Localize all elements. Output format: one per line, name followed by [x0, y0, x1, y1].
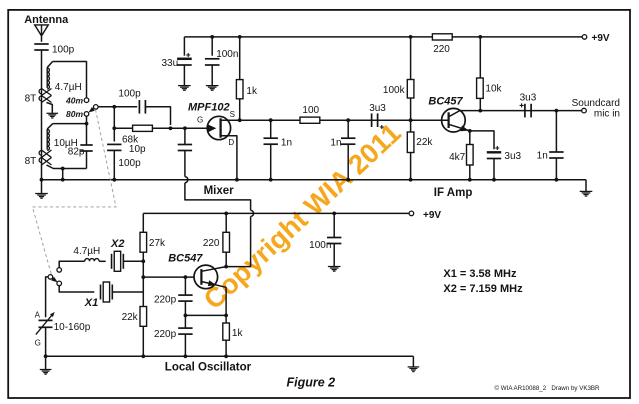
- svg-text:X2 = 7.159 MHz: X2 = 7.159 MHz: [443, 283, 523, 295]
- svg-text:4k7: 4k7: [449, 152, 466, 163]
- wire rail to 33u: [183, 37, 185, 56]
- svg-text:1k: 1k: [246, 86, 258, 97]
- capacitor 82p: [80, 144, 92, 146]
- svg-text:220p: 220p: [154, 294, 177, 305]
- junction base node LO: [141, 275, 145, 279]
- wire hop LO injection over ground rail: [185, 177, 188, 183]
- junction 68k-100p: [169, 126, 173, 130]
- junction rail-100n: [210, 35, 214, 39]
- svg-text:X2: X2: [110, 238, 124, 250]
- ground 100n LO: [328, 266, 341, 268]
- svg-text:A: A: [35, 311, 41, 320]
- junction 80m-L2: [85, 122, 89, 126]
- junction base-220p: [184, 275, 188, 279]
- svg-text:1k: 1k: [232, 328, 244, 339]
- junction rail-100n LO: [332, 212, 336, 216]
- svg-text:220p: 220p: [154, 329, 177, 340]
- polarity + 3u3 output: [520, 103, 524, 107]
- inductor L2 crossover turns: [42, 150, 52, 165]
- capacitor 100n mixer: [205, 58, 220, 60]
- transistor BC547 body: [194, 265, 218, 289]
- wire X1 to node: [112, 291, 143, 293]
- capacitor 10p injection: [178, 144, 192, 146]
- wire tuning cap to rail: [45, 327, 47, 356]
- BC457 collector lead: [449, 111, 460, 117]
- junction rail-100p: [112, 178, 116, 182]
- svg-text:+9V: +9V: [423, 210, 441, 221]
- svg-text:100n: 100n: [216, 49, 238, 60]
- capacitor 220p b: [184, 315, 186, 328]
- wire 220p junction link: [185, 314, 226, 316]
- band switch S1a lever: [91, 108, 94, 111]
- wire emitter to 4k7: [469, 131, 471, 145]
- LO output link upper: [185, 183, 251, 211]
- wire rail to 1k: [239, 37, 241, 80]
- band switch S1b lever: [52, 278, 55, 280]
- wire L2 top link: [53, 123, 87, 125]
- capacitor 1n a: [270, 120, 272, 138]
- resistor 68k: [114, 127, 132, 129]
- band switch S1a 80m contact: [84, 112, 89, 117]
- svg-text:82p: 82p: [68, 147, 85, 158]
- wire L2 bottom to ground rail: [62, 169, 64, 180]
- svg-text:BC457: BC457: [428, 96, 463, 108]
- junction source node: [238, 118, 242, 122]
- wire 33u to ground: [183, 65, 185, 85]
- junction tuning rail: [44, 354, 48, 358]
- svg-text:100k: 100k: [383, 85, 406, 96]
- svg-text:IF Amp: IF Amp: [434, 187, 473, 199]
- wire emitter down: [225, 287, 227, 315]
- svg-text:33u: 33u: [162, 58, 179, 69]
- wire 40m to L3: [59, 261, 84, 267]
- junction 22k rail: [409, 178, 413, 182]
- antenna symbol: [35, 25, 49, 36]
- BC547 base bar: [200, 269, 202, 285]
- wire L1 top to 40m contact: [53, 62, 87, 98]
- junction base node: [409, 118, 413, 122]
- wire rail to 10k: [479, 37, 481, 78]
- wire 82p top: [86, 142, 88, 145]
- junction X2 node: [141, 259, 145, 263]
- resistor 220 LO: [223, 232, 230, 252]
- capacitor 220p a: [184, 277, 186, 295]
- wire base node to 100k: [410, 98, 412, 120]
- svg-text:220: 220: [203, 238, 220, 249]
- svg-text:D: D: [228, 138, 234, 147]
- +9V rail mixer: [184, 36, 584, 38]
- MPF102 gate arrow: [208, 124, 217, 132]
- svg-text:1n: 1n: [537, 150, 548, 161]
- ground tuning: [45, 356, 47, 369]
- junction 1k rail LO: [224, 354, 228, 358]
- capacitor 100n LO: [333, 213, 335, 237]
- resistor 100 series: [300, 117, 320, 123]
- svg-text:3u3: 3u3: [520, 92, 537, 103]
- ground LO right: [412, 356, 414, 366]
- gang link dashed: [32, 110, 116, 275]
- junction emitter node: [468, 129, 472, 133]
- +9V rail LO: [143, 212, 411, 214]
- svg-text:100p: 100p: [52, 45, 75, 56]
- svg-text:27k: 27k: [149, 238, 166, 249]
- resistor 1k mixer: [236, 80, 243, 99]
- junction emitter-220p: [224, 314, 228, 318]
- wire L2 bottom: [47, 165, 87, 169]
- junction rail-220: [224, 212, 228, 216]
- wire X2 to node: [123, 260, 143, 262]
- resistor 27k: [140, 232, 147, 252]
- junction 4k7 rail: [468, 178, 472, 182]
- svg-text:X1: X1: [84, 297, 98, 309]
- wire 100p shunt to ground rail: [113, 150, 115, 179]
- polarity + 3u3 bypass: [495, 146, 499, 150]
- junction 1n-b rail: [346, 178, 350, 182]
- svg-text:10k: 10k: [485, 83, 502, 94]
- wire 68k to gate: [152, 127, 208, 129]
- resistor 22k if: [410, 120, 412, 132]
- base line LO: [143, 276, 194, 278]
- svg-text:100: 100: [302, 105, 319, 116]
- resistor 22k LO: [140, 307, 147, 327]
- capacitor 100p antenna: [34, 43, 48, 45]
- svg-text:+9V: +9V: [592, 33, 610, 44]
- svg-text:8T: 8T: [25, 156, 37, 167]
- junction 68k-left: [112, 126, 116, 130]
- junction rail-antenna: [40, 178, 44, 182]
- svg-text:X1 = 3.58 MHz: X1 = 3.58 MHz: [443, 268, 517, 280]
- svg-text:80m: 80m: [66, 109, 83, 119]
- wire rail to 220: [225, 213, 227, 232]
- MPF102 source lead: [221, 119, 240, 121]
- wire hop handled at rail: [184, 151, 186, 177]
- capacitor 33u electrolytic: [177, 58, 192, 61]
- capacitor 3u3 output: [524, 104, 526, 118]
- svg-text:1n: 1n: [281, 137, 292, 148]
- band switch S1a 40m contact: [84, 98, 89, 103]
- svg-text:100p: 100p: [118, 88, 141, 99]
- wire L1 bottom to ground: [47, 103, 53, 113]
- collector output line: [460, 110, 584, 112]
- capacitor 3u3 bypass electrolytic: [487, 151, 501, 153]
- svg-text:22k: 22k: [122, 312, 139, 323]
- svg-text:1n: 1n: [330, 137, 341, 148]
- inductor L1 4.7uH winding: [47, 68, 49, 89]
- junction 220p b rail: [184, 354, 188, 358]
- junction 1n-a rail: [269, 178, 273, 182]
- svg-text:10-160p: 10-160p: [54, 322, 91, 333]
- ground 100n: [206, 85, 219, 87]
- resistor 4k7: [467, 145, 474, 166]
- junction 22k rail LO: [141, 354, 145, 358]
- svg-text:Figure 2: Figure 2: [287, 376, 336, 390]
- svg-text:G: G: [197, 116, 203, 125]
- transistor MPF102 body: [207, 116, 230, 139]
- inductor L2 10uH top lead: [47, 124, 53, 129]
- capacitor 100p coupling top: [138, 100, 140, 114]
- junction rail-L2: [61, 178, 65, 182]
- ground 33u: [178, 85, 191, 87]
- svg-text:S: S: [230, 110, 235, 119]
- wire 10p to gate: [184, 128, 186, 144]
- BC547 collector lead: [201, 267, 226, 272]
- wire L3 to X2: [99, 260, 106, 262]
- svg-text:100p: 100p: [118, 158, 141, 169]
- wire 100k to rail: [410, 37, 412, 80]
- inductor L1 crossover turns: [42, 89, 52, 103]
- BC457 base bar: [448, 112, 450, 128]
- terminal +9V LO: [409, 211, 414, 216]
- ground rail LO: [46, 355, 414, 357]
- wire antenna to C1: [41, 36, 43, 42]
- wire 80m to X1: [59, 286, 94, 292]
- crystal X2: [111, 254, 113, 269]
- junction collector node LO: [224, 265, 228, 269]
- LO output link: [226, 216, 251, 266]
- resistor 100k: [407, 80, 414, 99]
- wire hop LO over +9V rail: [251, 210, 254, 216]
- capacitor 100p shunt: [107, 143, 121, 145]
- wire emitter to 3u3 bypass: [470, 131, 494, 149]
- polarity + 3u3 coupling: [380, 125, 384, 129]
- band switch S1b pole: [48, 275, 53, 280]
- wire 27k to X2 node: [142, 252, 144, 292]
- resistor 220 supply: [432, 34, 452, 40]
- junction collector-10k: [478, 109, 482, 113]
- crystal X1: [100, 285, 102, 300]
- svg-text:3u3: 3u3: [504, 151, 521, 162]
- signal line source to base: [240, 119, 448, 121]
- wire 1k to source: [239, 99, 241, 120]
- ground L1: [47, 112, 59, 114]
- inductor L1 4.7uH top lead: [47, 62, 52, 68]
- wire 10k to collector line: [479, 98, 481, 110]
- wire 4k7 to rail: [469, 165, 471, 180]
- svg-text:Mixer: Mixer: [204, 185, 235, 197]
- wire rail to 100n: [211, 37, 213, 56]
- terminal +9V mixer: [582, 35, 587, 40]
- ground rail mixer: [42, 179, 587, 181]
- wire 3u3 bypass to rail: [493, 159, 495, 180]
- junction 3u3 rail: [492, 178, 496, 182]
- wire pole to tuning cap: [46, 277, 49, 317]
- svg-text:40m: 40m: [65, 95, 83, 105]
- terminal soundcard: [582, 108, 587, 113]
- junction node sw-pole: [112, 105, 116, 109]
- svg-text:220: 220: [433, 44, 450, 55]
- junction 1n output rail: [555, 178, 559, 182]
- svg-text:4.7µH: 4.7µH: [55, 82, 82, 93]
- capacitor 3u3 coupling: [371, 113, 373, 127]
- band switch S1a pole: [94, 105, 99, 110]
- junction drain-rail: [235, 178, 239, 182]
- BC547 emitter lead: [201, 282, 226, 288]
- BC457 emitter lead: [449, 124, 470, 131]
- svg-text:© WIA AR10088_2 Drawn by VK3: © WIA AR10088_2 Drawn by VK3BR: [495, 385, 601, 392]
- junction 220p mid: [184, 314, 188, 318]
- svg-text:4.7µH: 4.7µH: [73, 246, 100, 257]
- junction rail-100k: [409, 35, 413, 39]
- capacitor 1n output: [555, 111, 557, 152]
- transistor BC457 body: [442, 108, 466, 132]
- svg-text:8T: 8T: [25, 94, 37, 105]
- ground main left: [41, 180, 43, 194]
- svg-text:3u3: 3u3: [369, 103, 386, 114]
- variable capacitor 10-160p: [39, 319, 53, 321]
- junction rail-10k: [478, 35, 482, 39]
- ground right end: [585, 180, 587, 192]
- svg-text:BC547: BC547: [168, 252, 203, 264]
- wire 82p bottom: [86, 151, 88, 169]
- svg-text:Soundcard: Soundcard: [572, 98, 620, 109]
- wire 100n to ground: [211, 65, 213, 85]
- band switch S1b 80m contact: [57, 281, 62, 286]
- svg-text:MPF102: MPF102: [188, 101, 230, 113]
- wire 100p lower branch: [113, 107, 115, 142]
- junction 1n-a: [269, 118, 273, 122]
- MPF102 drain lead: [221, 136, 237, 180]
- MPF102 channel bar: [219, 118, 221, 137]
- svg-text:mic in: mic in: [594, 109, 620, 120]
- resistor 1k LO: [225, 315, 227, 323]
- junction gate-10p: [183, 126, 187, 130]
- junction 1n-b: [346, 118, 350, 122]
- wire 100p to gate branch: [145, 107, 170, 125]
- polarity + 33u: [186, 53, 190, 57]
- inductor L2 10uH winding: [47, 129, 49, 150]
- wire 80m to L2/82p node: [86, 116, 88, 142]
- band switch S1b 40m contact: [57, 268, 62, 273]
- svg-text:22k: 22k: [416, 137, 433, 148]
- svg-text:100n: 100n: [309, 240, 331, 251]
- junction rail-1k: [238, 35, 242, 39]
- wire pole to C2/R1 node: [98, 106, 137, 108]
- svg-text:10p: 10p: [129, 144, 146, 155]
- svg-text:Local Oscillator: Local Oscillator: [165, 362, 252, 374]
- capacitor 1n b: [347, 120, 349, 138]
- junction L2-bottom: [61, 167, 65, 171]
- resistor 10k: [477, 78, 484, 98]
- junction output-1n: [555, 109, 559, 113]
- wire antenna main line: [41, 50, 43, 180]
- svg-text:G: G: [35, 339, 41, 348]
- wire 220 to collector: [225, 252, 227, 266]
- inductor L3 4.7uH: [85, 259, 99, 262]
- wire rail to 27k: [142, 213, 144, 232]
